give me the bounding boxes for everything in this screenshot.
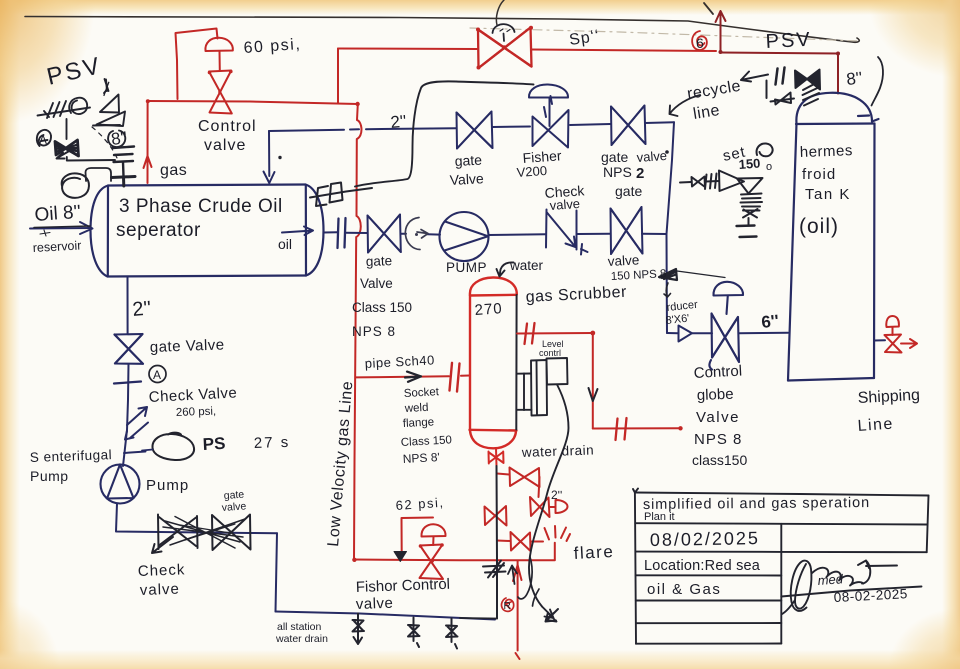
wire dark-red PSV vent line (arrow up)	[716, 11, 841, 94]
svg-text:hermes: hermes	[800, 142, 854, 161]
wire oil discharge header	[324, 232, 667, 235]
svg-text:2ʹʹ: 2ʹʹ	[390, 112, 408, 132]
svg-text:flare: flare	[573, 542, 615, 563]
svg-text:27 s: 27 s	[254, 434, 291, 452]
pump P1 centrifugal	[101, 465, 140, 504]
svg-text:gas: gas	[160, 162, 187, 179]
valve drain d3	[446, 619, 458, 649]
svg-text:Valve: Valve	[696, 409, 740, 426]
vessel hermes froid tank	[788, 93, 879, 381]
svg-text:gate: gate	[454, 152, 482, 169]
valve gate oil line	[368, 215, 401, 253]
wire oil inlet line	[30, 227, 91, 230]
svg-text:2ʹʹ: 2ʹʹ	[551, 488, 562, 502]
fitting red D-bleed	[556, 500, 568, 513]
svg-text:2ʹʹ: 2ʹʹ	[132, 297, 153, 321]
stray pen curl at x=505	[496, 0, 504, 25]
svg-text:gate: gate	[615, 183, 642, 199]
mark stray dot	[278, 156, 281, 159]
svg-text:valve: valve	[549, 196, 580, 213]
svg-text:simplified oil and gas sperati: simplified oil and gas speration	[643, 495, 870, 513]
svg-text:all station: all station	[277, 621, 322, 633]
svg-text:6ʹʹ: 6ʹʹ	[760, 311, 779, 332]
fitting 8-inch bracket curve	[872, 57, 883, 106]
valve GV1 gate	[457, 112, 493, 149]
valve big red bowtie on 60psi header	[476, 26, 533, 70]
spec break scribble	[483, 561, 506, 578]
wire red pipe-sch40 branch to scrubber	[356, 376, 449, 377]
svg-text:8ʹX6ʹ: 8ʹX6ʹ	[665, 313, 690, 327]
valve red drain ladder v2	[530, 497, 550, 517]
fitting rotation C-arrow	[405, 218, 428, 250]
flange tick	[114, 382, 141, 384]
svg-text:PSV: PSV	[765, 29, 812, 53]
svg-text:flange: flange	[403, 416, 435, 430]
PSV cluster tank dome	[741, 68, 820, 106]
svg-text:valve: valve	[636, 148, 667, 165]
valve drain d1	[353, 614, 365, 645]
svg-text:PS: PS	[202, 434, 226, 454]
svg-text:reservoir: reservoir	[32, 238, 81, 255]
svg-text:Class 150: Class 150	[352, 300, 412, 315]
control valve CV1 (red, top-left)	[205, 38, 232, 114]
relief set-150 assembly	[680, 171, 763, 238]
svg-text:water drain: water drain	[275, 633, 328, 645]
wire recycle vertical drop	[667, 122, 675, 333]
wire level-control drain curve	[529, 385, 569, 607]
svg-text:froid: froid	[802, 166, 836, 183]
svg-text:Fishor Control: Fishor Control	[356, 576, 451, 596]
node red circled R	[501, 598, 513, 611]
valve control globe black	[709, 282, 743, 370]
valve check oil line	[546, 210, 588, 255]
svg-text:Plan it: Plan it	[644, 511, 675, 523]
vessel V1 3-phase separator	[91, 185, 324, 277]
wire 6-inch tank feed	[667, 332, 679, 334]
valve red on black drain stack	[485, 506, 507, 526]
PSV cluster top-left	[37, 79, 125, 161]
border frame top line	[25, 17, 859, 43]
svg-text:valve: valve	[607, 252, 639, 269]
svg-text:S enterifugal: S enterifugal	[30, 447, 113, 465]
svg-text:valve: valve	[140, 581, 181, 599]
mark set-150 curl	[757, 143, 773, 156]
svg-text:globe: globe	[697, 386, 734, 404]
valve Fisher V200	[529, 84, 569, 147]
valve scribbled gates bottom loop	[152, 515, 251, 554]
instrument PS balloon	[152, 433, 194, 460]
svg-text:Control: Control	[693, 362, 742, 382]
svg-text:Socket: Socket	[404, 386, 441, 400]
wire red 60psi top header	[338, 48, 477, 51]
arrow down on red drop	[589, 388, 598, 401]
svg-text:class150: class150	[692, 452, 747, 468]
valve gate NPS2	[611, 106, 646, 146]
faint dash-dot guide line	[470, 28, 860, 41]
svg-text:med: med	[817, 571, 844, 588]
svg-text:270: 270	[474, 300, 503, 319]
wire red branch to 60psi top header	[337, 49, 339, 104]
svg-text:150: 150	[738, 156, 761, 172]
svg-text:Tan K: Tan K	[805, 186, 851, 203]
arrow red gas riser arrowhead	[144, 156, 152, 168]
fisher control valve FCV (red) with signal loop	[402, 518, 446, 580]
svg-text:3 Phase Crude Oil: 3 Phase Crude Oil	[119, 196, 283, 217]
pump P2	[440, 212, 489, 261]
svg-text:Valve: Valve	[449, 170, 484, 188]
svg-text:contrl: contrl	[539, 348, 561, 358]
svg-text:(oil): (oil)	[799, 215, 839, 238]
arrow flow on sch40 branch (black)	[405, 372, 421, 382]
svg-text:A: A	[39, 133, 47, 147]
wire red 62psi bottom header	[354, 559, 555, 562]
svg-text:Valve: Valve	[360, 276, 393, 291]
actuator hat on big red valve (black)	[493, 24, 515, 41]
valve gate vertical water	[115, 334, 144, 364]
svg-text:Pump: Pump	[30, 468, 69, 484]
wire pump discharge loop	[116, 504, 277, 534]
wire gas 2-inch header	[269, 122, 674, 131]
svg-text:water: water	[509, 258, 544, 273]
valve red drain ladder v3	[497, 540, 510, 543]
flange pair oil line	[338, 218, 346, 248]
valve check marks drop	[124, 407, 148, 453]
svg-text:valve: valve	[204, 137, 246, 154]
level controller boxes	[517, 358, 568, 416]
underline Oil 8	[34, 226, 90, 228]
svg-text:valve: valve	[221, 500, 246, 514]
title block	[633, 489, 929, 644]
fitting scribbled arrow	[659, 269, 677, 280]
node circled A (water drop)	[149, 366, 166, 383]
svg-text:Check: Check	[138, 561, 186, 580]
svg-text:8ʹʹ: 8ʹʹ	[845, 68, 863, 89]
wire red scrubber gas outlet to right	[517, 323, 683, 440]
svg-text:Location:Red sea: Location:Red sea	[644, 558, 761, 574]
wire freehand 2-inch curve	[355, 81, 534, 186]
valve red scrubber bottom drain	[489, 449, 504, 467]
fitting rounded-rect scribble	[86, 168, 112, 181]
wire red low-velocity gas line vertical with crossing hops	[354, 104, 361, 560]
wire red gas riser from separator	[147, 102, 149, 184]
arrow water into scrubber	[497, 262, 514, 276]
stray pen stroke top	[704, 3, 713, 14]
svg-text:08/02/2025: 08/02/2025	[650, 528, 760, 550]
arrow oil outlet inside vessel	[282, 227, 313, 236]
valve gate2 oil line	[611, 207, 643, 254]
wire red flare drop at x=517.6	[513, 561, 522, 660]
svg-text:NPS 8: NPS 8	[352, 324, 396, 339]
wire red main control-valve header	[148, 101, 358, 104]
valve drain d2	[408, 618, 420, 648]
node red circled-6 mark	[692, 31, 707, 50]
arrow inlet	[80, 222, 93, 234]
svg-text:oil: oil	[278, 236, 292, 252]
wire black squiggles near flare	[518, 557, 532, 599]
svg-text:260 psi,: 260 psi,	[176, 406, 217, 419]
svg-text:gate: gate	[366, 253, 393, 269]
wire below gate valve	[123, 364, 129, 466]
valve red shipping line	[885, 316, 918, 353]
svg-text:weld: weld	[404, 402, 429, 415]
svg-text:R: R	[504, 601, 511, 612]
svg-text:6: 6	[696, 35, 704, 51]
svg-text:valve: valve	[356, 595, 394, 613]
svg-text:seperator: seperator	[116, 220, 201, 241]
svg-text:Pump: Pump	[146, 477, 189, 494]
svg-text:A: A	[153, 368, 161, 382]
signature flourish	[781, 561, 921, 615]
wire scrubber drain vertical	[496, 466, 499, 619]
fitting reducer triangle	[679, 326, 693, 342]
svg-text:gate: gate	[601, 149, 628, 165]
flange socket-weld pair	[450, 363, 453, 391]
svg-text:water drain: water drain	[521, 442, 595, 460]
fitting sight-glass brackets	[310, 183, 372, 207]
wire all-station drain header	[276, 612, 496, 620]
svg-text:8ʹʹ: 8ʹʹ	[110, 128, 128, 149]
svg-text:Control: Control	[198, 118, 257, 135]
instrument scribble ellipse	[62, 173, 89, 197]
svg-text:Shipping: Shipping	[857, 387, 920, 407]
svg-text:gate Valve: gate Valve	[150, 336, 225, 356]
fitting gas nozzle flange stack	[112, 147, 136, 187]
svg-text:V200: V200	[516, 163, 547, 180]
svg-text:PUMP: PUMP	[446, 260, 487, 275]
arrow black signal arrowhead	[394, 552, 407, 562]
gas scrubber vessel (red, black right wall)	[470, 277, 517, 448]
svg-text:NPS: NPS	[603, 164, 632, 180]
wire red bypass loop up-and-over	[176, 29, 218, 100]
svg-text:Oil 8ʹʹ: Oil 8ʹʹ	[34, 202, 82, 226]
valve red drain ladder v1	[485, 468, 568, 552]
node dot	[665, 150, 669, 154]
svg-text:NPS 8ʹ: NPS 8ʹ	[402, 450, 440, 466]
node junction dot red main	[146, 99, 150, 103]
arrow recycle leader	[670, 95, 701, 116]
wire recycle return riser	[268, 131, 270, 176]
wire shipping outlet	[874, 339, 885, 341]
svg-text:o: o	[766, 161, 772, 173]
svg-text:2: 2	[636, 165, 644, 182]
svg-text:oil & Gas: oil & Gas	[647, 581, 721, 598]
wire separator water drop	[127, 277, 129, 335]
flare tip rays (red)	[545, 526, 571, 560]
svg-text:Line: Line	[857, 416, 894, 435]
svg-text:NPS 8: NPS 8	[694, 431, 742, 448]
